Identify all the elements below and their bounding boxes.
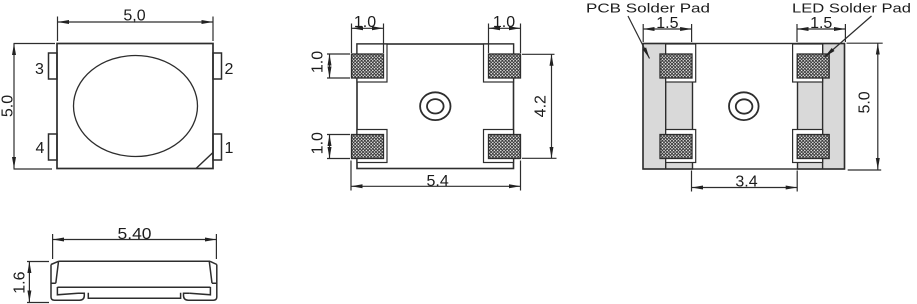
dim 5.40: extension lines [53, 234, 217, 259]
pin 4 tab [49, 134, 58, 160]
solder pad hatched top-right [489, 54, 521, 78]
svg-text:3: 3 [35, 61, 44, 78]
dimension 5,0 top: extension lines [58, 17, 214, 42]
side view right outer edge and right lead foot [184, 265, 217, 301]
svg-text:1.0: 1.0 [309, 132, 326, 154]
pad recess outline bottom-right [793, 130, 823, 163]
dim 1.6: extension lines [27, 262, 49, 303]
layout outer rectangle [643, 44, 845, 170]
side view right lead inner edge [190, 287, 211, 295]
svg-text:1: 1 [225, 140, 234, 157]
svg-text:PCB Solder Pad: PCB Solder Pad [586, 1, 710, 16]
dim 1.0 left lower: extension lines [327, 135, 350, 159]
pin 2 tab [213, 53, 222, 79]
svg-text:4: 4 [36, 140, 45, 157]
svg-text:2: 2 [225, 61, 234, 78]
svg-text:5.0: 5.0 [856, 91, 873, 113]
dim 1.0 left upper: dimension line [329, 54, 331, 78]
dim 1.5 right: dimension line [797, 28, 845, 30]
svg-text:1.5: 1.5 [810, 15, 832, 32]
side view top-right chamfer [210, 261, 217, 264]
pin 1 tab [213, 134, 222, 160]
pad recess outline top-right [484, 44, 514, 82]
LED solder pad hatched bottom-left [660, 135, 692, 159]
dim 4.2 right: extension lines [522, 54, 557, 158]
dim 1.5 left: extension lines [643, 24, 691, 42]
dimension 5,0 top: dimension line [58, 21, 214, 23]
side view right side step [209, 262, 217, 284]
LED solder pad hatched top-right [797, 54, 829, 78]
dim 5.4 bottom: extension lines [351, 161, 521, 191]
leader line PCB Solder Pad [628, 16, 650, 59]
dim 5.4 bottom: dimension line [351, 185, 521, 187]
center ring outer [420, 92, 450, 120]
svg-text:1.0: 1.0 [354, 14, 376, 31]
leader line LED Solder Pad [825, 16, 872, 57]
pad recess outline bottom-right [484, 130, 514, 163]
svg-text:3.4: 3.4 [735, 173, 757, 190]
pin-1 corner chamfer [196, 153, 213, 169]
dim 1.0 top-left pad: dimension line [352, 27, 384, 29]
lens ellipse [74, 56, 198, 157]
svg-text:1.5: 1.5 [656, 15, 678, 32]
svg-text:4.2: 4.2 [533, 95, 550, 117]
dim 1.0 left lower: dimension line [329, 135, 331, 159]
dim 5.0 right: extension lines [847, 43, 883, 170]
LED body edge line right [822, 44, 824, 170]
dim 3.4 bottom: extension lines [692, 171, 798, 192]
LED solder pad hatched bottom-right [797, 135, 829, 159]
svg-text:5.0: 5.0 [0, 95, 17, 117]
svg-text:1.0: 1.0 [493, 14, 515, 31]
dim 1.0 top-right pad: dimension line [489, 27, 521, 29]
dimension 5.0 left: extension lines [14, 44, 56, 170]
PCB solder pad strip right (grey) [798, 44, 845, 170]
svg-text:5,0: 5,0 [123, 8, 145, 25]
svg-text:1.6: 1.6 [12, 271, 29, 293]
pad recess outline bottom-left [666, 130, 696, 163]
dim 1.0 top-right pad: extension lines [489, 24, 521, 54]
svg-text:1.0: 1.0 [309, 51, 326, 73]
dim 1.6: dimension line [28, 262, 30, 303]
LED solder pad hatched top-left [660, 54, 692, 78]
solder pad hatched top-left [352, 54, 384, 78]
side view left lead inner edge [57, 287, 78, 295]
side view center recess [88, 293, 180, 298]
center ring inner [736, 99, 753, 113]
dim 1.5 left: dimension line [643, 28, 691, 30]
dim 1.5 right: extension lines [797, 24, 845, 42]
center ring outer [729, 92, 759, 120]
dim 3.4 bottom: dimension line [692, 187, 798, 189]
PCB solder pad strip left (grey) [643, 44, 693, 170]
pad recess outline top-left [357, 44, 387, 82]
side view body top edge [59, 260, 211, 262]
LED body outline (top view) [57, 44, 213, 169]
svg-text:LED Solder Pad: LED Solder Pad [792, 1, 911, 16]
center ring inner [427, 99, 444, 113]
pad recess outline bottom-left [357, 130, 387, 163]
pad recess outline top-right [793, 44, 823, 82]
LED body edge line left [665, 44, 667, 170]
pin 3 tab [49, 53, 58, 79]
dimension 5.0 left: dimension line [13, 44, 15, 169]
side view left side step [51, 262, 59, 284]
dim 4.2 right: dimension line [551, 54, 553, 158]
dim 1.0 left upper: extension lines [327, 54, 350, 78]
dim 5.40: dimension line [53, 239, 217, 241]
pad recess outline top-left [666, 44, 696, 82]
solder pad hatched bottom-left [352, 135, 384, 159]
LED body outline (bottom view) [357, 44, 514, 169]
svg-text:5.4: 5.4 [426, 173, 448, 190]
dim 5.0 right: dimension line [877, 43, 879, 169]
svg-text:5.40: 5.40 [118, 226, 152, 243]
side view left outer edge and left lead foot [51, 265, 84, 301]
solder pad hatched bottom-right [489, 135, 521, 159]
dim 1.0 top-left pad: extension lines [352, 24, 384, 54]
side view top-left chamfer [51, 261, 59, 264]
side view body bottom line [57, 286, 210, 288]
